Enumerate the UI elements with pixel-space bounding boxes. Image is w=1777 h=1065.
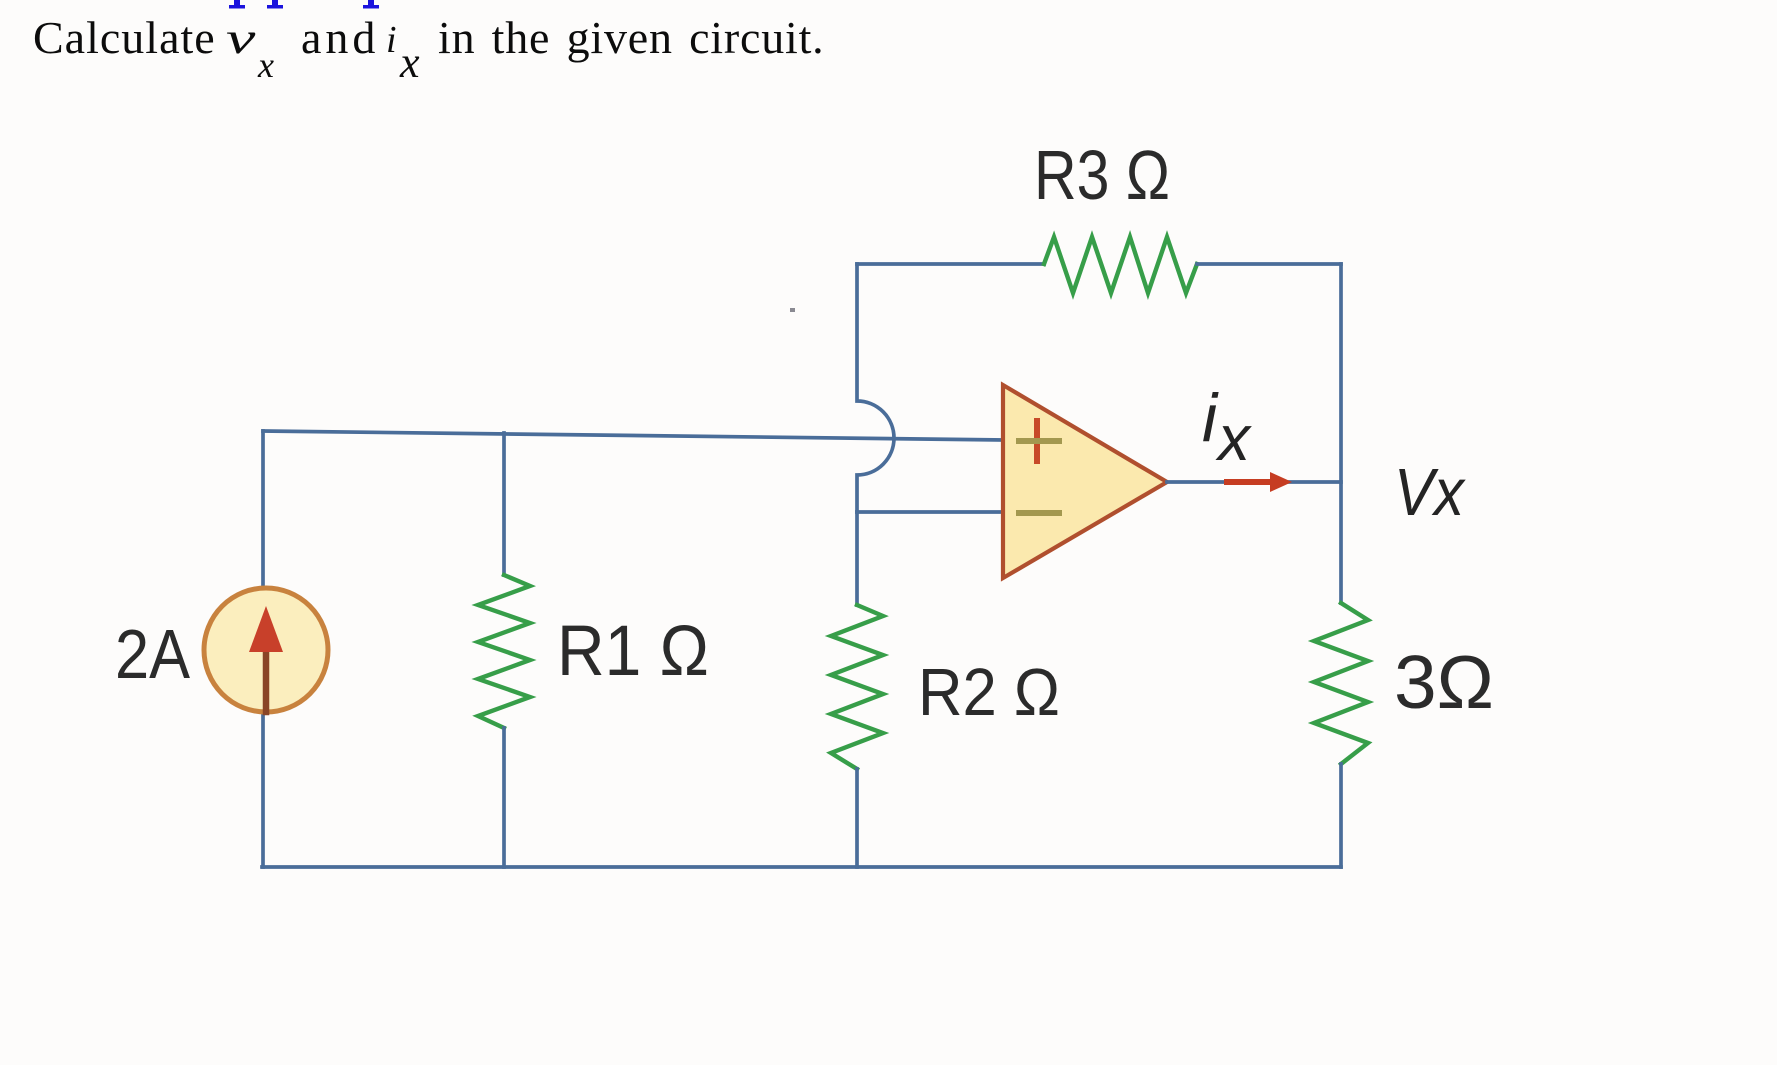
wire: bottom rail (262, 865, 1341, 869)
wire: R3 feedback branch vertical with hop (857, 264, 894, 512)
svg-text:2A: 2A (115, 615, 190, 693)
cropped blue text fragment 2 (267, 0, 283, 9)
wire: top node horizontal (+ input net) (263, 431, 1003, 440)
svg-text:R1 Ω: R1 Ω (557, 612, 709, 691)
resistor R2 (831, 512, 883, 867)
current arrow ix (1227, 472, 1292, 492)
current source 2A (204, 588, 328, 712)
cropped blue text fragment 3 (363, 0, 379, 9)
resistor 3 ohm (right branch) (1314, 264, 1368, 867)
wire: inverting input (857, 510, 1003, 514)
op-amp U1 (1003, 385, 1167, 578)
resistor R1 (478, 433, 530, 867)
svg-text:i: i (1202, 380, 1219, 456)
wire: left vertical top (261, 431, 265, 589)
wire: left vertical bottom (261, 711, 265, 867)
svg-text:R2 Ω: R2 Ω (918, 655, 1060, 730)
svg-text:3Ω: 3Ω (1394, 640, 1494, 724)
cropped blue text fragment 1 (229, 0, 245, 9)
label ix (1202, 380, 1252, 474)
title text (33, 11, 216, 64)
resistor R3 (857, 237, 1341, 293)
svg-text:Vx: Vx (1394, 455, 1466, 530)
speck (790, 308, 795, 312)
svg-text:R3 Ω: R3 Ω (1034, 136, 1170, 214)
svg-text:x: x (1215, 402, 1252, 474)
wire: op-amp output (1167, 480, 1341, 484)
